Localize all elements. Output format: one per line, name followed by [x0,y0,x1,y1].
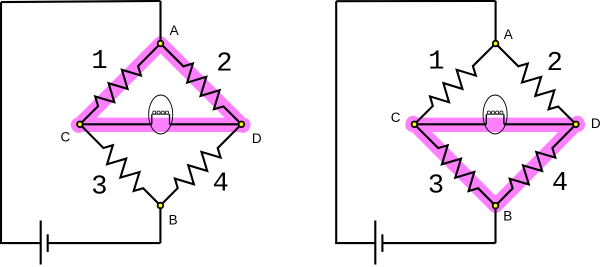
svg-text:1: 1 [91,47,107,77]
resistor 4 (left circuit) [160,124,241,205]
svg-text:4: 4 [552,169,568,199]
svg-text:D: D [591,116,600,131]
galvanometer left circuit: coil [152,111,170,124]
wire left side (right circuit) [335,1,337,243]
svg-text:B: B [503,209,512,224]
wire top (right circuit) [336,0,495,2]
wire battery to riser (left circuit) [48,242,161,244]
svg-text:2: 2 [547,49,563,79]
node A left circuit (junction dot) [158,41,164,47]
node A right circuit (junction dot) [493,41,499,47]
wire drop to node A (right circuit) [495,1,497,44]
node C right circuit (junction dot) [412,122,418,128]
galvanometer right circuit: body ellipse [483,95,507,134]
svg-text:4: 4 [213,170,229,200]
node B left circuit (junction dot) [158,203,164,209]
wire riser to node B (left circuit) [159,206,161,244]
bridge wire C to galvanometer (left circuit) [80,123,152,125]
node B right circuit (junction dot) [493,203,499,209]
wire bottom left to battery (left circuit) [0,242,41,244]
wire bottom left to battery (right circuit) [335,242,375,244]
highlighted bridge path C-D (left circuit) [78,118,244,132]
node C left circuit (junction dot) [77,122,83,128]
highlighted bridge path C-D (right circuit) [412,118,578,132]
svg-text:1: 1 [428,48,444,78]
battery left circuit: short plate (-) [47,234,49,252]
bridge wire C to galvanometer (right circuit) [414,123,486,125]
svg-text:C: C [391,110,401,125]
resistor 2 (left circuit) [161,44,242,125]
wire top (left circuit) [1,1,161,2]
svg-text:C: C [61,130,71,145]
galvanometer left circuit: body ellipse [149,95,173,134]
wire left side (left circuit) [0,2,2,243]
wire riser to node B (right circuit) [494,206,496,243]
node D left circuit (junction dot) [239,122,245,128]
battery left circuit: long plate (+) [40,221,42,265]
resistor 4 (right circuit) [496,124,576,205]
resistor 3 (left circuit) [80,124,160,205]
resistor 2 (right circuit) [496,44,576,125]
svg-text:B: B [169,212,178,227]
wire drop to node A (left circuit) [159,1,161,44]
battery right circuit: long plate (+) [374,221,376,265]
bridge wire galvanometer to D (left circuit) [170,123,242,125]
galvanometer right circuit: coil [486,111,504,124]
resistor 3 (right circuit) [414,124,495,205]
resistor 1 (right circuit) [414,44,495,125]
svg-text:D: D [252,131,262,146]
node D right circuit (junction dot) [573,122,579,128]
highlighted current path C-B-D (right circuit) [413,123,577,206]
resistor 1 (left circuit) [80,44,161,125]
wire battery to riser (right circuit) [382,242,495,244]
svg-text:3: 3 [91,172,107,202]
highlighted current path C-A-D (left circuit) [79,44,243,126]
svg-text:2: 2 [216,50,232,80]
svg-text:3: 3 [428,172,444,202]
battery right circuit: short plate (-) [381,234,383,252]
svg-text:A: A [504,27,513,42]
svg-text:A: A [170,23,179,38]
bridge wire galvanometer to D (right circuit) [504,123,576,125]
